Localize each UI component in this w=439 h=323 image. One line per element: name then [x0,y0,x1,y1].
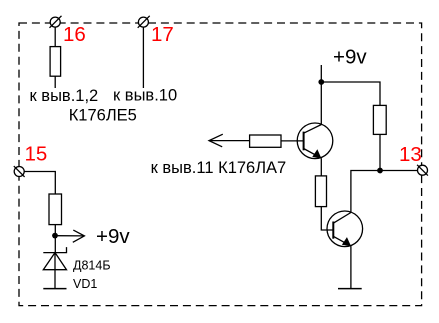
terminal 17 [138,16,150,28]
label к выв.11 К176ЛА7 [151,159,287,177]
svg-text:Д814Б: Д814Б [73,259,111,273]
svg-text:13: 13 [399,143,422,166]
svg-text:15: 15 [25,143,48,166]
svg-text:к выв.10: к выв.10 [113,87,177,105]
label 13 [399,143,422,166]
wire from resistor R5 to Q1 base [281,140,304,142]
terminal 16 [50,16,62,28]
label 17 [151,23,174,46]
label 16 [63,23,86,46]
wire from Q2 emitter to ground [350,246,352,289]
wire from resistor R1 down to pin label [54,76,56,88]
ground bar under Q2 [338,288,362,290]
svg-text:16: 16 [63,23,86,46]
wire from resistor R4 to output node [379,134,381,170]
svg-text:к выв.11 К176ЛА7: к выв.11 К176ЛА7 [151,159,287,177]
svg-text:VD1: VD1 [73,277,97,291]
wire from Q1 emitter to resistor R3 [320,158,322,176]
wire from resistor R3 to Q2 base [321,207,333,230]
transistor Q1 [297,123,333,159]
label +9v (left) [96,225,130,248]
resistor R4 (collector load) [373,105,386,134]
junction node +9v (left) [52,233,58,239]
junction node at +9v rail [318,79,324,85]
junction node at output [377,168,383,174]
resistor R1 (under terminal 16) [50,47,61,77]
terminal 15 [14,166,25,177]
label к выв.1,2 [30,87,99,105]
label к выв.10 [113,87,177,105]
zener diode VD1 [43,247,66,270]
wire from terminal 15 to resistor R2 [24,172,55,195]
wire from VD1 anode down [54,270,56,289]
svg-text:17: 17 [151,23,174,46]
label +9v (top) [333,46,367,69]
wire from Q2 collector up to output node [351,171,418,213]
svg-text:к выв.1,2: к выв.1,2 [30,87,99,105]
wire from resistor R2 to +9v node [54,225,56,253]
terminal 13 [417,165,428,176]
resistor R3 (emitter of Q1) [315,176,326,207]
svg-text:+9v: +9v [333,46,367,69]
wire from terminal 17 down to pin label [142,26,144,88]
transistor Q2 [327,211,363,247]
resistor R2 (series with VD1) [49,194,62,225]
label К176ЛЕ5 [69,107,137,125]
+9v rail stub [320,65,322,82]
ground bar under VD1 [43,288,66,290]
svg-text:К176ЛЕ5: К176ЛЕ5 [69,107,137,125]
arrow to +9v (left) [55,230,84,242]
arrow to к выв.11 (points left) [209,134,250,147]
wire +9v rail to resistor R4 [321,82,380,105]
label Д814Б [73,259,111,273]
resistor R5 (base of Q1) [250,135,281,147]
wire through VD1 [54,253,56,270]
label VD1 [73,277,97,291]
wire from terminal 16 down to resistor R1 [54,26,56,47]
svg-text:+9v: +9v [96,225,130,248]
wire from +9v junction to Q1 collector [320,82,322,124]
label 15 [25,143,48,166]
